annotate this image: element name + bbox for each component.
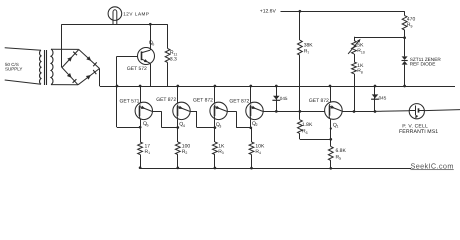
capacitor C1 .045	[272, 85, 280, 113]
wire bridge positive output	[99, 69, 101, 87]
svg-text:6: 6	[152, 42, 154, 46]
wire Q1 collector to bus	[329, 85, 332, 103]
label GET 872	[309, 98, 329, 104]
svg-text:9: 9	[411, 24, 413, 28]
wire Q3 emitter to Q2 node	[227, 111, 251, 128]
wire Q3 emitter lead	[214, 119, 217, 129]
label GET 571	[120, 99, 140, 105]
label R8 1K	[357, 63, 364, 75]
svg-text:4: 4	[259, 151, 261, 155]
wire Q5 collector to bus	[139, 85, 142, 103]
+12.6V rail wire	[281, 11, 405, 13]
label Q6	[149, 40, 155, 46]
wire node to Q6 base and Q5 emitter	[116, 56, 141, 127]
svg-text:2: 2	[256, 123, 258, 127]
svg-text:1.8K: 1.8K	[302, 122, 313, 128]
potentiometer R10 5K	[348, 39, 361, 54]
label R5 6.8K	[336, 148, 347, 161]
wire R9 node to pot	[354, 37, 405, 41]
svg-text:045: 045	[379, 95, 387, 100]
svg-text:1: 1	[148, 151, 150, 155]
label Q1	[333, 122, 339, 128]
wire Q4 collector to bus	[176, 85, 179, 103]
resistor R9 470	[402, 11, 407, 39]
label +12.6V	[260, 9, 277, 15]
zener diode SZT11	[402, 38, 408, 88]
svg-text:5: 5	[339, 157, 341, 161]
resistor R3 1K	[213, 128, 218, 168]
label GET 872	[229, 98, 249, 104]
svg-text:+12.6V: +12.6V	[260, 9, 277, 15]
transistor Q3 GET 872	[210, 102, 227, 119]
wire Q2 emitter lead	[249, 119, 252, 129]
wire Q1 emitter lead	[330, 119, 332, 139]
svg-text:7: 7	[307, 51, 309, 55]
wire Q6 collector to top rail	[149, 23, 152, 50]
label Q4	[179, 122, 185, 128]
label GET 572	[127, 66, 147, 72]
svg-text:GET 572: GET 572	[127, 66, 147, 72]
50 C/S supply terminals	[5, 48, 41, 84]
svg-text:10: 10	[361, 50, 365, 54]
transistor Q6 GET 572	[138, 48, 155, 65]
resistor R11 3.3	[165, 24, 170, 86]
transistor Q1 GET 872	[325, 102, 343, 120]
svg-text:SeekIC.com: SeekIC.com	[411, 161, 454, 170]
svg-text:5: 5	[147, 124, 149, 128]
label Q5	[143, 121, 149, 127]
svg-text:1: 1	[336, 125, 338, 129]
wire bridge negative to top rail	[61, 24, 63, 67]
svg-text:4: 4	[183, 124, 185, 128]
label GET 872	[193, 97, 213, 103]
wire Q1 emitter line right	[342, 110, 409, 113]
transformer T1	[40, 49, 53, 85]
label SZT11 ZENER REF DIODE	[410, 57, 442, 67]
wire Q2 collector to bus	[249, 85, 252, 103]
label R9 470	[407, 17, 416, 29]
resistor R4 10K	[249, 128, 254, 168]
collector bus wire	[100, 86, 455, 88]
svg-text:SUPPLY: SUPPLY	[5, 67, 22, 72]
wire Q2 emitter to Q1 base	[263, 111, 325, 113]
ground rail	[139, 166, 411, 169]
svg-text:12V LAMP: 12V LAMP	[123, 12, 149, 17]
svg-text:REF DIODE: REF DIODE	[410, 62, 436, 67]
svg-text:3.3: 3.3	[170, 57, 177, 63]
wire Q4 emitter to Q3 node	[190, 111, 215, 127]
label R1 17	[145, 143, 151, 155]
svg-text:GET 872: GET 872	[309, 98, 329, 104]
svg-text:GET 872: GET 872	[229, 98, 249, 104]
capacitor C2 .045	[371, 85, 379, 113]
photovoltaic cell PV1 FERRANTI MS1	[409, 104, 424, 119]
svg-text:GET 872: GET 872	[156, 97, 176, 103]
resistor R2 100	[175, 128, 180, 169]
label R7 38K	[304, 43, 314, 55]
label R4 10K	[255, 143, 265, 155]
label C2 045	[379, 95, 387, 100]
label Q2	[252, 121, 258, 127]
svg-text:6: 6	[306, 131, 308, 135]
label R6 1.8K	[302, 122, 313, 135]
wire secondary top to bridge AC top	[51, 48, 79, 50]
top rail wire	[62, 24, 168, 26]
wire Q5 emitter to Q4 node	[152, 111, 178, 127]
label R3 1K	[218, 143, 225, 155]
svg-text:GET 872: GET 872	[193, 97, 213, 103]
wire PV cell to edge	[424, 110, 460, 111]
svg-text:6.8K: 6.8K	[336, 148, 347, 154]
wire Q5 emitter lead	[139, 119, 142, 128]
wire Q3 collector to bus	[214, 85, 217, 103]
label C1 045	[280, 96, 288, 101]
resistor R8 1K	[352, 54, 357, 113]
wire secondary bottom to bridge AC bottom	[51, 84, 78, 86]
watermark	[411, 161, 454, 170]
resistor R1 17	[138, 127, 143, 168]
wire Q4 emitter lead	[176, 119, 179, 129]
lamp LP1 12V	[108, 7, 122, 24]
svg-text:045: 045	[280, 96, 288, 101]
transistor Q4 GET 872	[173, 102, 190, 119]
label 12V LAMP	[123, 12, 149, 17]
resistor R6 1.8K	[298, 111, 303, 139]
label 50 C/S SUPPLY	[5, 62, 22, 72]
svg-text:3: 3	[219, 124, 221, 128]
label R11 3.3	[170, 50, 177, 62]
wire R6 to Q1 emitter node	[300, 138, 332, 141]
svg-text:GET 571: GET 571	[120, 99, 140, 105]
label R2 100	[182, 143, 191, 155]
svg-text:8: 8	[361, 70, 363, 74]
resistor R7 38K	[298, 10, 303, 113]
svg-text:FERRANTI MS1: FERRANTI MS1	[399, 129, 438, 135]
label GET 872	[156, 97, 176, 103]
label R10 5K	[357, 43, 365, 55]
svg-text:2: 2	[185, 151, 187, 155]
label Q3	[216, 122, 222, 128]
wire Q6 emitter down to bus	[150, 64, 152, 86]
transistor Q2 GET 872	[246, 102, 263, 119]
resistor R5 6.8K	[328, 139, 333, 168]
svg-text:3: 3	[222, 151, 224, 155]
transistor Q5 GET 571	[135, 102, 152, 119]
bridge rectifier D1-D4	[62, 50, 100, 85]
label P.V. CELL FERRANTI MS1	[399, 123, 438, 135]
